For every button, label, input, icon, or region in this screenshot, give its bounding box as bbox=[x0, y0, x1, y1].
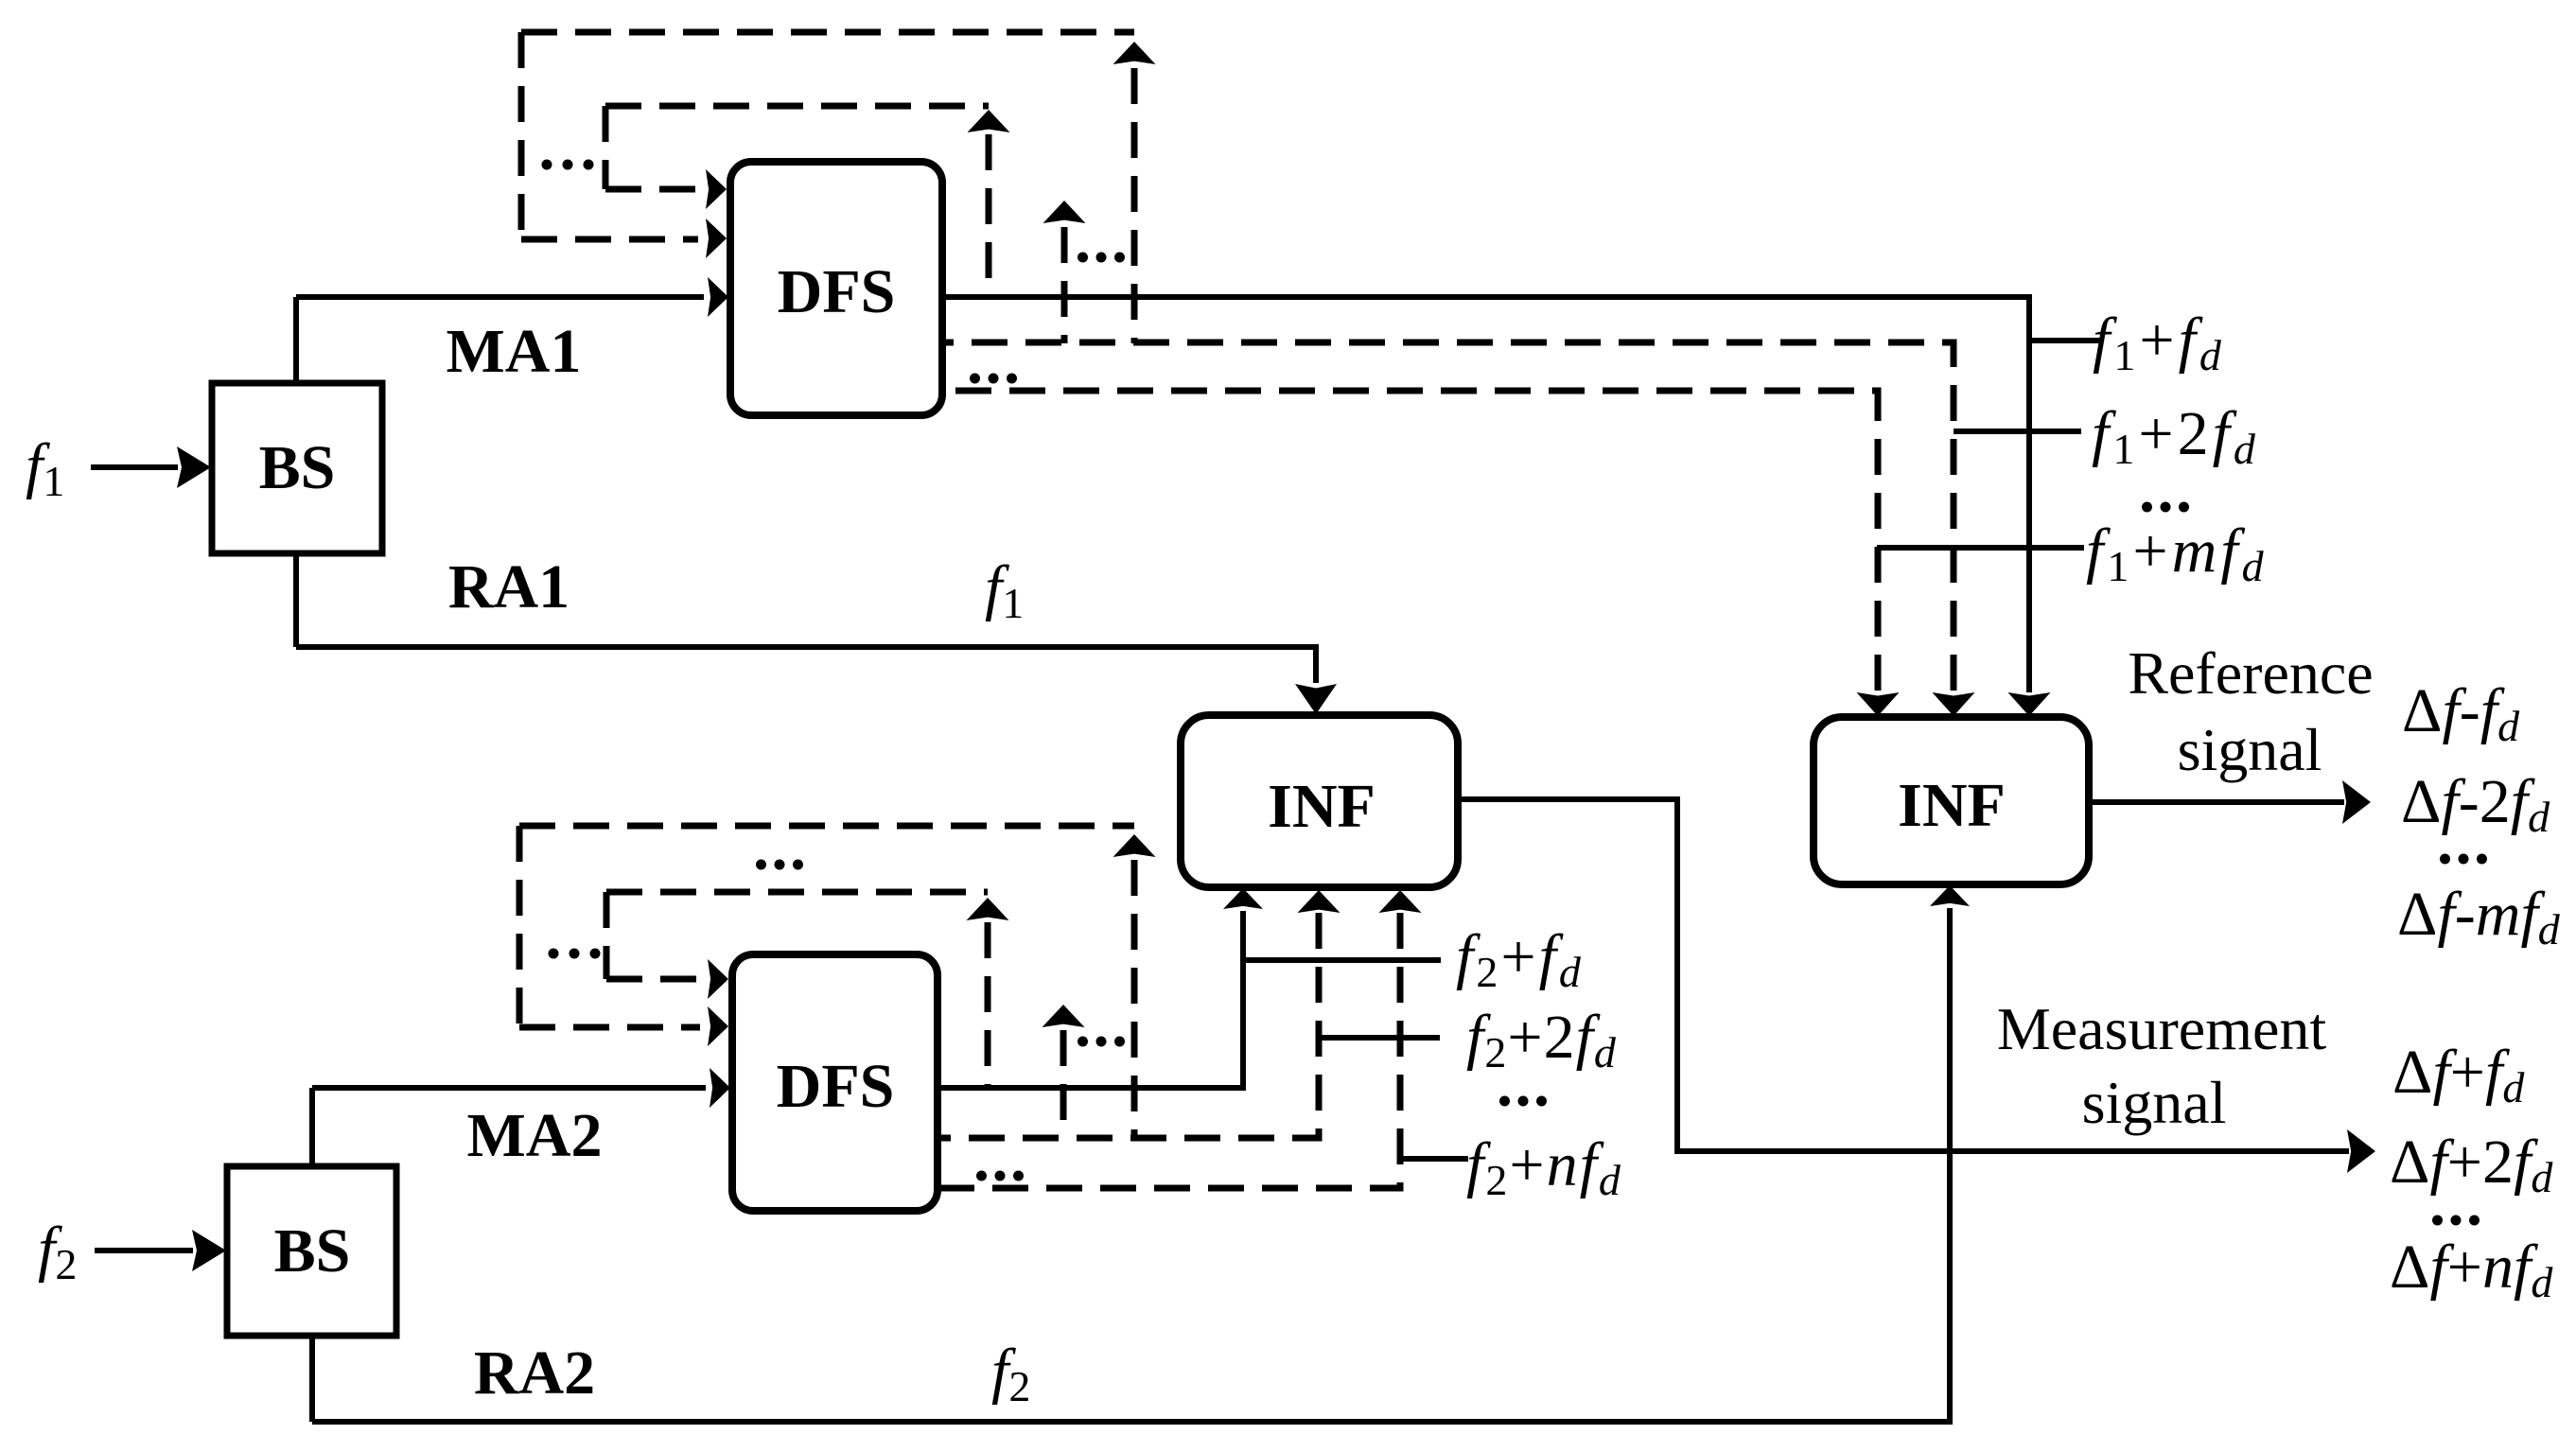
svg-text:Δf+nfd: Δf+nfd bbox=[2390, 1233, 2553, 1306]
svg-text:DFS: DFS bbox=[777, 1052, 895, 1121]
svg-text:RA2: RA2 bbox=[474, 1338, 595, 1408]
svg-text:DFS: DFS bbox=[778, 257, 896, 326]
svg-text:BS: BS bbox=[259, 433, 336, 502]
svg-text:RA1: RA1 bbox=[448, 552, 570, 621]
svg-text:Reference: Reference bbox=[2128, 639, 2373, 707]
svg-text:Δf-mfd: Δf-mfd bbox=[2397, 880, 2561, 953]
svg-text:INF: INF bbox=[1898, 771, 2006, 840]
svg-text:MA1: MA1 bbox=[447, 317, 582, 386]
svg-text:Δf+2fd: Δf+2fd bbox=[2390, 1128, 2553, 1201]
svg-text:Measurement: Measurement bbox=[1997, 995, 2327, 1062]
svg-text:BS: BS bbox=[274, 1216, 351, 1286]
svg-text:INF: INF bbox=[1268, 772, 1376, 841]
svg-text:signal: signal bbox=[2178, 716, 2322, 783]
svg-text:signal: signal bbox=[2082, 1069, 2227, 1136]
svg-text:MA2: MA2 bbox=[467, 1101, 603, 1170]
